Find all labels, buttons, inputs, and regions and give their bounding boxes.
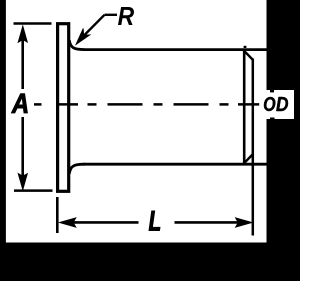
chamfer tangent line (right end) (243, 49, 246, 166)
body top line (83, 48, 268, 51)
label L (149, 211, 160, 231)
label R (118, 7, 134, 25)
dimension A extension line bottom (14, 189, 53, 192)
black frame right border (267, 0, 301, 281)
leader arrowhead for R (76, 28, 90, 44)
OD leader arrow remnant bottom (270, 118, 275, 121)
chamfer diagonal bottom (244, 154, 254, 164)
chamfer diagonal top (244, 50, 254, 60)
dimension L arrowhead left (59, 218, 76, 227)
black frame bottom border (0, 243, 300, 281)
black frame left border (0, 0, 6, 281)
centerline (dashed axis) (34, 103, 259, 106)
dimension A extension line top (14, 22, 52, 25)
flange (head of part) (58, 24, 69, 192)
leader line for R (horizontal) (105, 14, 118, 16)
body bottom line (83, 163, 268, 166)
dimension L arrowhead right (236, 218, 253, 227)
white label box for OD (267, 90, 295, 119)
dimension A arrowhead down (18, 173, 27, 190)
dimension L extension line left (56, 197, 59, 233)
leader line for R (diagonal) (81, 15, 105, 39)
dimension A line upper segment (21, 39, 24, 89)
dimension L line left segment (73, 221, 139, 224)
label OD (264, 97, 288, 111)
OD leader arrow remnant top (270, 90, 274, 92)
dimension L line right segment (175, 221, 239, 224)
dimension A arrowhead up (18, 26, 27, 43)
label A (11, 94, 27, 113)
end face line / L right extension line (252, 59, 255, 236)
fillet radius bottom (69, 164, 84, 174)
fillet radius top (R) (69, 40, 84, 50)
scan speck above chamfer corner (244, 46, 247, 48)
dimension A line lower segment (21, 117, 24, 177)
